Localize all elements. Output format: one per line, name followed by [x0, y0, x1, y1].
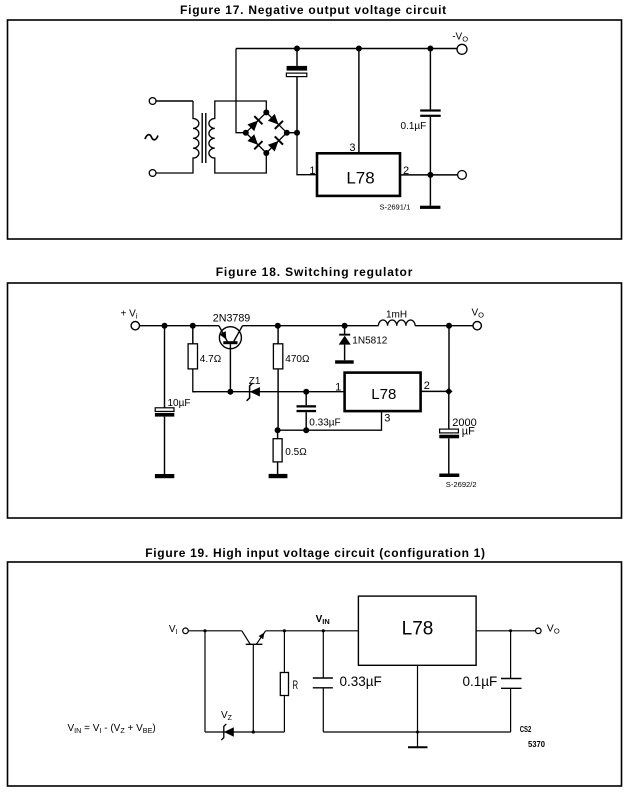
fig19 wire top to C6	[322, 631, 324, 678]
svg-text:S-2692/2: S-2692/2	[446, 480, 477, 489]
fig19 regulator U3 box	[358, 596, 476, 665]
fig18 wire top to D5	[344, 326, 346, 334]
fig19 transistor Q2 emitter	[256, 631, 265, 645]
fig18 junction top/470ohm	[275, 323, 281, 329]
fig17 transformer T1 primary winding	[156, 101, 199, 173]
fig18 capacitor C4 plate top	[297, 405, 317, 407]
fig17 wire C1 to node A	[296, 77, 298, 133]
fig17 ground symbol fig17	[420, 206, 440, 209]
fig17 bridge rectifier edges	[246, 112, 287, 153]
fig18 wire R3 to ground	[277, 462, 279, 474]
fig17 junction rail/C2	[427, 46, 433, 52]
fig19 transistor Q2 collector	[242, 631, 251, 645]
fig17 AC input terminal top	[149, 98, 156, 105]
svg-text:1: 1	[309, 165, 315, 177]
svg-text:VIN = VI - (VZ + VBE): VIN = VI - (VZ + VBE)	[68, 723, 156, 735]
fig17 AC source symbol ~	[145, 135, 158, 140]
fig18 capacitor C5 plate+	[440, 429, 459, 433]
fig19 wire VI node down to zener rail	[204, 631, 206, 732]
fig19 junction top/C6	[322, 629, 325, 632]
svg-text:Figure 19. High input voltage: Figure 19. High input voltage circuit (c…	[145, 546, 486, 560]
fig17 capacitor C1 plate-	[286, 73, 306, 77]
svg-text:R: R	[293, 678, 299, 692]
svg-text:0.1µF: 0.1µF	[463, 674, 498, 689]
fig19 transistor Q2 base bar	[246, 643, 263, 645]
fig18 wire C5 to ground	[448, 438, 450, 473]
svg-text:3: 3	[349, 142, 355, 154]
fig19 junction gnd pin/rail	[416, 731, 419, 734]
fig18 input terminal +Vi	[131, 322, 139, 330]
fig18 zener Z1 triangle	[250, 387, 260, 396]
fig18 wire top to R2	[277, 326, 279, 344]
fig18 output terminal VO	[473, 322, 481, 330]
fig17 capacitor C2 plate bottom	[420, 115, 441, 117]
svg-text:VO: VO	[472, 308, 485, 320]
fig18 junction lower rail/R3	[275, 427, 281, 433]
fig18 junction pin2/output branch	[445, 388, 452, 395]
fig17 transformer T1 secondary winding and wires to bridge	[209, 101, 266, 173]
figure 17 frame	[8, 20, 622, 239]
fig17 bridge node top junction	[263, 109, 269, 115]
fig17 regulator U1 box	[317, 153, 400, 196]
svg-text:VO: VO	[547, 623, 560, 636]
fig17 bridge diode D4 (bottom to right)	[267, 136, 283, 152]
fig17 capacitor C2 plate top	[420, 109, 441, 111]
fig19 junction base/zener rail	[252, 730, 255, 733]
fig19 wire Q2 emitter to U3 pin	[266, 630, 359, 632]
fig19 wire U3 output to VO	[476, 630, 535, 632]
svg-text:S-2691/1: S-2691/1	[380, 202, 411, 211]
fig17 output terminal ground side	[458, 171, 467, 180]
svg-text:Figure 18. Switching regulator: Figure 18. Switching regulator	[216, 265, 414, 279]
fig19 wire R4 to zener rail	[283, 696, 285, 733]
svg-text:CS2: CS2	[520, 724, 532, 734]
fig18 diode D5 cathode bar	[339, 334, 350, 336]
fig18 diode D5 triangle	[339, 336, 351, 345]
svg-text:-VO: -VO	[452, 32, 468, 44]
svg-text:L78: L78	[402, 618, 434, 639]
fig19 wire output to C7	[510, 631, 512, 679]
fig17 wire node A to pin1	[297, 133, 317, 175]
fig18 wire C4 to lower rail	[305, 412, 307, 430]
svg-text:1mH: 1mH	[386, 310, 407, 321]
fig18 ground symbol D5	[335, 360, 354, 363]
svg-text:0.33µF: 0.33µF	[309, 417, 340, 428]
fig17 bridge node left junction	[243, 130, 249, 136]
fig17 capacitor C1 plate+	[287, 66, 308, 71]
svg-text:0.33µF: 0.33µF	[340, 674, 382, 689]
svg-text:0.5Ω: 0.5Ω	[285, 447, 307, 458]
fig19 output terminal VO fig19	[536, 628, 542, 634]
fig19 ground symbol fig19	[408, 746, 428, 748]
svg-text:10µF: 10µF	[168, 398, 191, 409]
svg-text:Figure 17. Negative output vol: Figure 17. Negative output voltage circu…	[180, 3, 447, 17]
fig19 wire top to R4	[283, 631, 285, 673]
fig18 junction Z1 rail/C4	[303, 389, 309, 395]
svg-text:4.7Ω: 4.7Ω	[200, 354, 222, 365]
fig18 capacitor C3 plate+	[155, 408, 174, 412]
svg-text:L78: L78	[346, 169, 374, 188]
fig18 junction top/4.7ohm	[190, 323, 196, 329]
fig19 junction top/R4	[283, 629, 286, 632]
fig18 resistor R1 4.7ohm	[188, 344, 197, 369]
fig19 capacitor C7 plate top	[501, 678, 522, 680]
fig18 junction top/1N5812	[342, 323, 348, 329]
fig18 transistor Q1 emitter	[219, 326, 227, 342]
fig17 bridge node right junction	[284, 130, 290, 136]
fig18 transistor Q1 emitter arrow	[220, 331, 230, 341]
fig18 ground symbol C3	[155, 474, 174, 478]
fig18 ground symbol R3	[269, 474, 288, 478]
fig17 bridge node bottom junction	[263, 150, 269, 156]
fig19 zener VZ cathode bar	[221, 724, 226, 740]
fig17 AC input terminal bottom	[149, 170, 156, 177]
fig19 transistor Q2 emitter arrow	[259, 631, 267, 639]
svg-text:5370: 5370	[528, 739, 545, 749]
fig18 capacitor C3 plate-	[155, 413, 174, 417]
fig17 wire C2 to pin2 node	[429, 117, 431, 175]
svg-text:+ Vi: + Vi	[121, 309, 138, 321]
fig18 transistor Q1 2N3789 body	[219, 327, 241, 349]
svg-text:VI: VI	[169, 624, 178, 636]
fig17 bridge diode D3 (left to bottom)	[247, 134, 263, 150]
fig18 capacitor C5 plate-	[439, 435, 459, 439]
fig18 wire R1 to Z1 rail	[193, 369, 196, 392]
fig19 wire ground rail	[323, 731, 510, 733]
fig17 wire pin2 node to ground	[429, 175, 431, 206]
fig18 wire top to R1	[192, 326, 194, 344]
fig17 wire input top to primary	[156, 100, 193, 102]
fig19 junction VI/zener branch	[203, 629, 206, 632]
fig17 wire negative output rail	[236, 48, 458, 50]
fig18 wire lower rail	[278, 411, 382, 430]
figure 18 frame	[8, 283, 622, 518]
fig19 capacitor C6 plate top	[313, 677, 333, 679]
fig17 junction pin2/C2	[427, 172, 433, 178]
fig17 wire rail to C2	[429, 49, 431, 110]
fig18 wire input to Q1 emitter	[140, 325, 219, 327]
fig17 wire rail to C1	[296, 49, 298, 66]
fig19 wire VI to Q2 collector	[188, 630, 242, 632]
fig18 wire R2 to lower rail	[277, 369, 279, 430]
svg-text:L78: L78	[371, 386, 396, 403]
fig18 transistor Q1 base bar	[223, 341, 237, 344]
fig17 node A junction	[294, 130, 300, 136]
fig18 junction top/10uF	[162, 323, 168, 329]
fig18 capacitor C4 plate bottom	[297, 410, 317, 412]
fig18 wire Q1 collector to inductor	[243, 325, 379, 327]
fig19 transistor Q2 base lead	[252, 644, 254, 732]
fig18 wire inductor to VO	[415, 325, 473, 327]
svg-text:0.1µF: 0.1µF	[401, 121, 427, 132]
fig17 junction rail/pin3	[356, 46, 362, 52]
fig18 resistor R3 0.5ohm	[273, 439, 282, 462]
fig18 wire D5 to ground	[344, 345, 346, 361]
fig19 resistor R4	[280, 673, 288, 696]
fig18 wire C3 to ground	[164, 417, 166, 474]
svg-text:Z1: Z1	[249, 376, 261, 387]
fig17 junction rail/C1	[294, 46, 300, 52]
fig18 transistor Q1 base lead	[229, 344, 231, 392]
fig19 input terminal VI	[183, 628, 189, 634]
fig17 pin 2 wire	[400, 174, 458, 176]
fig17 wire bridge right to node A	[287, 132, 297, 134]
svg-text:VIN: VIN	[316, 614, 330, 626]
fig17 wire negative rail to bridge left corner	[236, 49, 246, 133]
fig19 junction output/C7	[509, 629, 512, 632]
fig18 pin 2 wire fig18	[421, 390, 449, 392]
fig18 wire Z1 rail to C4	[305, 392, 307, 406]
fig17 bridge diode D2 (top to right)	[267, 113, 283, 129]
svg-text:µF: µF	[462, 426, 475, 438]
svg-text:3: 3	[384, 413, 390, 425]
fig19 zener VZ triangle	[224, 727, 234, 736]
fig17 output terminal -VO	[457, 44, 467, 54]
fig17 transformer T1 core	[201, 113, 203, 163]
fig19 wire C7 to ground rail	[510, 688, 512, 732]
fig18 transistor Q1 collector	[234, 326, 243, 342]
svg-text:2N3789: 2N3789	[213, 313, 250, 325]
fig19 capacitor C7 plate bottom	[501, 687, 522, 689]
fig18 inductor L1 1mH	[378, 320, 415, 326]
svg-text:1N5812: 1N5812	[352, 336, 387, 347]
fig19 wire zener rail	[205, 731, 284, 733]
figure 19 frame	[8, 562, 622, 786]
svg-text:470Ω: 470Ω	[285, 354, 310, 365]
fig18 ground symbol C5	[439, 474, 459, 478]
fig17 pin 3 wire	[358, 49, 360, 154]
fig18 junction top/output node	[446, 323, 452, 329]
fig18 wire top to C3	[164, 326, 166, 408]
fig18 regulator U2 box	[345, 373, 421, 412]
fig19 capacitor C6 plate bottom	[313, 687, 333, 689]
fig18 wire output node to pin2 junction	[448, 326, 450, 392]
fig18 resistor R2 470ohm	[273, 344, 282, 369]
fig18 zener Z1 cathode bar	[247, 383, 253, 401]
fig18 junction lower rail/C4	[303, 427, 309, 433]
svg-text:1: 1	[335, 381, 341, 393]
fig19 wire U3 ground pin	[417, 665, 419, 746]
svg-text:VZ: VZ	[221, 710, 233, 722]
fig19 wire C6 to ground rail	[322, 688, 324, 732]
fig17 bridge diode D1 (left to top)	[247, 116, 263, 132]
fig18 wire lower rail to R3	[277, 430, 279, 439]
fig18 wire pin2 junction to C5	[448, 391, 450, 429]
fig18 junction base/Z1 rail	[227, 389, 233, 395]
fig18 wire Z1 rail to pin1	[193, 391, 345, 393]
svg-text:2: 2	[424, 380, 430, 392]
